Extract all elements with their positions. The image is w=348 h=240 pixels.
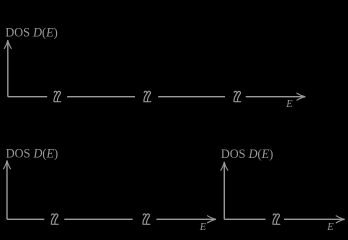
horizontal axis arrowhead top diagram (297, 93, 306, 100)
vertical axis line top diagram (7, 41, 9, 97)
axis break bottom-right diagram (273, 214, 280, 224)
horizontal axis line segments bottom-right diagram (224, 218, 344, 220)
axis break 2 bottom-left diagram (143, 214, 150, 224)
vertical axis arrowhead top diagram (4, 40, 11, 49)
svg-text:DOS D(E): DOS D(E) (221, 147, 273, 161)
svg-text:E: E (326, 222, 334, 233)
svg-text:E: E (199, 222, 207, 233)
horizontal axis arrowhead bottom-right diagram (336, 216, 345, 223)
axis break 3 top diagram (234, 91, 241, 101)
svg-text:DOS D(E): DOS D(E) (5, 26, 57, 40)
horizontal axis arrowhead bottom-left diagram (207, 216, 216, 223)
axis break 1 top diagram (54, 91, 61, 101)
horizontal axis line segments bottom-left diagram (7, 218, 216, 220)
axis break 1 bottom-left diagram (51, 214, 58, 224)
vertical axis arrowhead bottom-left diagram (3, 160, 10, 169)
vertical axis line bottom-right diagram (223, 162, 225, 219)
svg-text:E: E (285, 99, 293, 110)
axis break 2 top diagram (144, 91, 151, 101)
vertical axis arrowhead bottom-right diagram (221, 162, 228, 171)
vertical axis line bottom-left diagram (6, 161, 8, 219)
horizontal axis line segments top diagram (8, 96, 305, 98)
svg-text:DOS D(E): DOS D(E) (6, 147, 58, 161)
